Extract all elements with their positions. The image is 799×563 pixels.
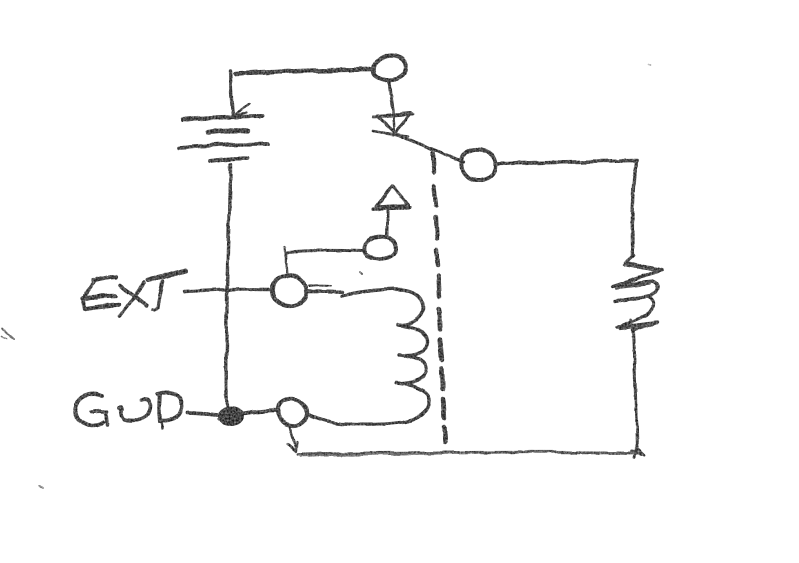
battery B1 plate 2 (short)	[208, 130, 247, 132]
battery B1 top lead	[230, 71, 233, 115]
junction dot GND node	[218, 406, 244, 426]
wire T3 to coil top	[307, 285, 342, 292]
battery B1 plate 1 (long)	[182, 116, 263, 120]
wire EXT lead	[185, 289, 270, 292]
dashed actuator link	[433, 153, 445, 442]
wire node to T5	[244, 410, 277, 413]
terminal T1 top blob	[374, 55, 407, 81]
wire right rail upper	[632, 161, 636, 256]
stray mark left edge	[1, 328, 14, 339]
relay coil K1	[310, 289, 429, 424]
terminal T3 EXT blob	[272, 276, 306, 306]
wire T4 to up arrow	[387, 210, 390, 237]
label GND	[75, 392, 182, 430]
speck top right	[648, 65, 650, 66]
wire bottom	[298, 452, 640, 456]
speck near T4	[360, 272, 362, 274]
switch arm pivot cross line	[373, 131, 409, 136]
switch pivot arrow (down triangle)	[374, 113, 413, 133]
wire right rail lower	[633, 331, 637, 450]
wire T5 drop with arrow	[288, 428, 297, 451]
terminal T2 contact blob	[462, 149, 496, 181]
wire top horizontal	[235, 70, 373, 75]
label EXT	[84, 270, 186, 316]
battery B1 bottom lead to GND node	[226, 164, 230, 406]
terminal T5 GND blob	[278, 399, 307, 426]
up arrow (NC contact symbol)	[373, 186, 410, 209]
resistor R1	[612, 256, 662, 333]
speck lower left	[40, 486, 43, 488]
bottom right corner arrow mark	[632, 447, 645, 457]
battery B1 plate 3 (long)	[179, 144, 267, 148]
wire GND lead	[188, 413, 217, 415]
switch arm (diagonal)	[396, 134, 464, 162]
wire T1 to switch arrow	[389, 81, 393, 114]
terminal T4 blob under arrow	[364, 237, 396, 259]
wire T2 to right rail	[496, 161, 637, 165]
battery B1 arrowhead	[233, 103, 249, 116]
wire link to auxiliary terminal	[285, 246, 363, 277]
battery B1 plate 4 (short)	[210, 158, 248, 161]
